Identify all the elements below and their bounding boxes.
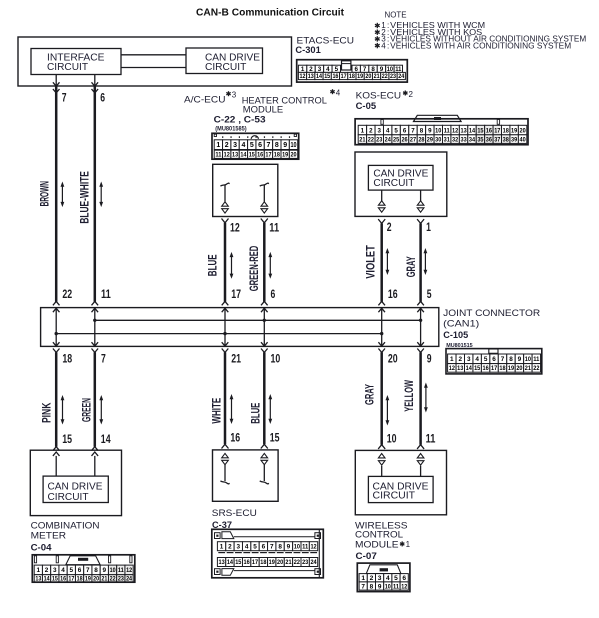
joint connector bottom chevrons w6 bbox=[417, 342, 424, 346]
svg-text:WHITE: WHITE bbox=[211, 398, 223, 424]
svg-text:5: 5 bbox=[250, 142, 254, 149]
svg-text:3: 3 bbox=[232, 91, 237, 100]
svg-text:GRAY: GRAY bbox=[365, 384, 377, 405]
svg-text:28: 28 bbox=[418, 137, 425, 143]
svg-text:2: 2 bbox=[458, 356, 462, 363]
connector chevron KOS pin 1 bbox=[417, 219, 424, 223]
svg-text:23: 23 bbox=[390, 73, 396, 80]
svg-text:7: 7 bbox=[86, 567, 90, 574]
svg-text:MODULE: MODULE bbox=[355, 540, 399, 551]
joint connector top chevrons w3 bbox=[222, 301, 229, 305]
terminal hook symbol pin 12 bbox=[220, 183, 229, 186]
svg-text:16: 16 bbox=[483, 365, 490, 372]
svg-text:13: 13 bbox=[35, 576, 42, 582]
svg-text:26: 26 bbox=[401, 137, 408, 143]
wireless control module box bbox=[355, 450, 446, 514]
comb meter entry chevrons pin 15 bbox=[53, 447, 60, 451]
svg-text:18: 18 bbox=[349, 73, 355, 80]
joint connector top chevrons w2 bbox=[92, 301, 99, 305]
connector chevrons ETACS pin 7 bbox=[53, 82, 60, 86]
wire GRAY pin1-to-5 bbox=[419, 223, 422, 301]
svg-text:18: 18 bbox=[62, 351, 72, 365]
direction arrow w2 bbox=[100, 184, 102, 206]
svg-text:4: 4 bbox=[245, 544, 249, 551]
svg-text:BLUE: BLUE bbox=[250, 402, 262, 423]
svg-text:16: 16 bbox=[244, 559, 251, 566]
svg-text:20: 20 bbox=[93, 576, 100, 582]
svg-text:14: 14 bbox=[101, 432, 111, 446]
joint connector top chevrons w5 bbox=[378, 301, 385, 305]
svg-text:1: 1 bbox=[361, 575, 365, 582]
svg-text:17: 17 bbox=[252, 559, 259, 566]
junction node bus1-w4 bbox=[263, 319, 266, 322]
svg-text:18: 18 bbox=[77, 576, 84, 582]
svg-text:C-301: C-301 bbox=[295, 45, 321, 56]
svg-text:17: 17 bbox=[265, 152, 271, 159]
combination meter box bbox=[30, 450, 121, 515]
svg-text:12: 12 bbox=[310, 544, 317, 551]
wire BROWN pin7-to-22 bbox=[55, 86, 58, 302]
svg-text:18: 18 bbox=[499, 365, 506, 372]
C-07 top tab bbox=[366, 565, 401, 574]
svg-text:22: 22 bbox=[110, 576, 117, 582]
svg-text:6: 6 bbox=[403, 127, 407, 134]
joint connector bottom chevrons w4 bbox=[261, 342, 268, 346]
svg-text:7: 7 bbox=[101, 351, 106, 365]
terminal hook symbol pin 11 bbox=[260, 183, 269, 186]
svg-text:10: 10 bbox=[271, 351, 281, 365]
svg-text:24: 24 bbox=[310, 559, 317, 566]
svg-text:12: 12 bbox=[449, 365, 456, 372]
joint connector top chevrons w4 bbox=[261, 301, 268, 305]
joint connector top chevrons w6 bbox=[417, 301, 424, 305]
direction arrow lower w5 bbox=[386, 397, 388, 424]
svg-text:CIRCUIT: CIRCUIT bbox=[205, 62, 246, 73]
svg-text:8: 8 bbox=[94, 567, 98, 574]
svg-text:22: 22 bbox=[382, 73, 388, 80]
connector chevrons ETACS pin 6 bbox=[92, 82, 99, 86]
svg-text:20: 20 bbox=[388, 351, 398, 365]
svg-text:1: 1 bbox=[216, 142, 220, 149]
C-37 top band line bbox=[234, 536, 315, 538]
svg-text:CIRCUIT: CIRCUIT bbox=[48, 492, 89, 503]
direction arrow lower w1 bbox=[62, 397, 64, 423]
SRS entry chevron pin 16 bbox=[222, 444, 229, 448]
wire YELLOW 9-to-11 bbox=[419, 352, 422, 445]
svg-text:CAN DRIVE: CAN DRIVE bbox=[48, 481, 103, 492]
SRS-ECU box bbox=[213, 450, 279, 501]
svg-text:5: 5 bbox=[70, 567, 74, 574]
wire stub pin7 bbox=[55, 75, 57, 87]
svg-text::: : bbox=[387, 41, 389, 50]
joint connector top chevrons w1 bbox=[53, 301, 60, 305]
svg-text:10: 10 bbox=[110, 567, 116, 574]
svg-text:19: 19 bbox=[508, 365, 515, 372]
svg-text:7: 7 bbox=[501, 356, 505, 363]
svg-text:39: 39 bbox=[511, 137, 518, 143]
svg-text:CAN-B Communication Circuit: CAN-B Communication Circuit bbox=[196, 7, 345, 18]
svg-text:GREEN-RED: GREEN-RED bbox=[249, 246, 261, 292]
joint connector bottom chevrons w5 bbox=[378, 342, 385, 346]
svg-text:9: 9 bbox=[287, 544, 291, 551]
svg-text:C-22 , C-53: C-22 , C-53 bbox=[214, 114, 266, 125]
svg-text:8: 8 bbox=[278, 544, 282, 551]
svg-text:C-04: C-04 bbox=[31, 542, 53, 553]
wire WHITE 21-to-16 bbox=[224, 352, 227, 444]
svg-text:16: 16 bbox=[257, 152, 263, 159]
svg-text:3: 3 bbox=[467, 356, 471, 363]
svg-text:BLUE-WHITE: BLUE-WHITE bbox=[80, 171, 92, 224]
svg-text:6: 6 bbox=[258, 142, 262, 149]
svg-text:36: 36 bbox=[486, 137, 493, 143]
svg-text:5: 5 bbox=[427, 287, 432, 301]
svg-text:9: 9 bbox=[427, 351, 432, 365]
direction arrow lower w3 bbox=[231, 396, 233, 422]
direction arrow w1 bbox=[61, 184, 63, 206]
svg-text:20: 20 bbox=[516, 365, 523, 372]
svg-text:15: 15 bbox=[474, 365, 481, 372]
joint connector bottom chevrons w3 bbox=[222, 342, 229, 346]
svg-text:5: 5 bbox=[484, 356, 488, 363]
svg-text:21: 21 bbox=[285, 559, 292, 566]
svg-text:C-105: C-105 bbox=[443, 330, 469, 341]
svg-text:7: 7 bbox=[62, 90, 67, 104]
svg-text:6: 6 bbox=[402, 575, 406, 582]
wire BLUE-WHITE pin6-to-11 bbox=[94, 86, 97, 302]
svg-text:15: 15 bbox=[235, 559, 242, 566]
svg-text:10: 10 bbox=[294, 544, 301, 551]
svg-text:18: 18 bbox=[503, 127, 510, 134]
svg-text:20: 20 bbox=[519, 127, 526, 134]
svg-text:4: 4 bbox=[386, 127, 390, 134]
C-37 top-left tab bbox=[222, 532, 234, 539]
CAN drive circuit box (wireless) bbox=[368, 476, 433, 502]
connector C-301 drawing bbox=[297, 60, 408, 82]
svg-text:12: 12 bbox=[300, 73, 306, 80]
svg-text:24: 24 bbox=[398, 73, 404, 80]
svg-text:14: 14 bbox=[466, 365, 473, 372]
joint connector internal wire w4 bbox=[263, 308, 265, 347]
svg-text:13: 13 bbox=[218, 559, 225, 566]
svg-text:14: 14 bbox=[469, 127, 476, 134]
svg-text:11: 11 bbox=[118, 567, 124, 574]
connector chevron KOS pin 2 bbox=[378, 219, 385, 223]
svg-text:21: 21 bbox=[359, 137, 366, 143]
svg-text:19: 19 bbox=[85, 576, 92, 582]
svg-text:37: 37 bbox=[494, 137, 501, 143]
junction node bus1-w6 bbox=[419, 319, 422, 322]
svg-text:C-05: C-05 bbox=[356, 101, 377, 112]
CAN drive circuit box (ETACS) bbox=[186, 48, 263, 74]
svg-text:C-07: C-07 bbox=[356, 551, 377, 562]
svg-text:3: 3 bbox=[378, 575, 382, 582]
svg-text:11: 11 bbox=[269, 220, 279, 234]
interface circuit box U-INT bbox=[31, 49, 121, 75]
svg-text:11: 11 bbox=[393, 583, 399, 590]
svg-text:17: 17 bbox=[341, 73, 347, 80]
svg-text:31: 31 bbox=[444, 137, 451, 143]
svg-text:6: 6 bbox=[100, 90, 105, 104]
direction arrow w3 bbox=[231, 254, 233, 277]
wireless twisted pair triangles pin 10 bbox=[378, 454, 385, 458]
svg-text:12: 12 bbox=[452, 127, 459, 134]
svg-text:21: 21 bbox=[231, 351, 241, 365]
svg-text:11: 11 bbox=[444, 127, 451, 134]
svg-text:GREEN: GREEN bbox=[81, 398, 93, 422]
svg-text:19: 19 bbox=[282, 152, 288, 159]
svg-text:9: 9 bbox=[378, 583, 382, 590]
svg-text:11: 11 bbox=[302, 544, 309, 551]
svg-text:YELLOW: YELLOW bbox=[404, 380, 416, 412]
svg-text:12: 12 bbox=[126, 567, 132, 574]
svg-text:2: 2 bbox=[387, 220, 392, 234]
svg-text:1: 1 bbox=[426, 220, 431, 234]
svg-text:23: 23 bbox=[302, 559, 309, 566]
svg-text:13: 13 bbox=[457, 365, 464, 372]
svg-text:11: 11 bbox=[101, 287, 111, 301]
svg-text:20: 20 bbox=[290, 152, 296, 159]
svg-text:4: 4 bbox=[475, 356, 479, 363]
svg-text:13: 13 bbox=[308, 73, 314, 80]
wire VIOLET pin2-to-16 bbox=[380, 223, 383, 301]
svg-text:20: 20 bbox=[277, 559, 284, 566]
wireless entry chevron pin 10 bbox=[378, 445, 385, 449]
svg-text:17: 17 bbox=[231, 287, 241, 301]
svg-text:9: 9 bbox=[518, 356, 522, 363]
svg-text:1: 1 bbox=[406, 540, 411, 549]
svg-text:NOTE: NOTE bbox=[385, 10, 408, 19]
svg-text:8: 8 bbox=[275, 142, 279, 149]
svg-text:30: 30 bbox=[435, 137, 442, 143]
svg-text:34: 34 bbox=[469, 137, 476, 143]
comb meter entry chevrons pin 14 bbox=[92, 447, 99, 451]
svg-text:A/C-ECU: A/C-ECU bbox=[184, 94, 226, 105]
joint connector internal wire w2 bbox=[94, 308, 96, 347]
svg-text:20: 20 bbox=[365, 73, 371, 80]
direction arrow lower w2 bbox=[100, 397, 102, 423]
svg-text:22: 22 bbox=[533, 365, 540, 372]
svg-text:2: 2 bbox=[45, 567, 49, 574]
svg-text:6: 6 bbox=[262, 544, 266, 551]
svg-text:VEHICLES WITH AIR CONDITIONING: VEHICLES WITH AIR CONDITIONING SYSTEM bbox=[390, 41, 571, 50]
svg-text:2: 2 bbox=[228, 544, 232, 551]
svg-text:15: 15 bbox=[249, 152, 255, 159]
svg-text:7: 7 bbox=[361, 583, 365, 590]
svg-text:9: 9 bbox=[103, 567, 107, 574]
svg-text:22: 22 bbox=[294, 559, 301, 566]
connector C-22 C-53 drawing bbox=[212, 133, 299, 159]
KOS-ECU box bbox=[355, 152, 447, 216]
connector C-105 drawing bbox=[446, 349, 542, 374]
svg-text:15: 15 bbox=[477, 127, 484, 134]
joint connector internal wire w6 bbox=[420, 308, 422, 347]
svg-text:33: 33 bbox=[460, 137, 467, 143]
svg-text:21: 21 bbox=[525, 365, 532, 372]
svg-text:29: 29 bbox=[427, 137, 434, 143]
junction node bus2-w1 bbox=[55, 332, 58, 335]
svg-text:19: 19 bbox=[269, 559, 276, 566]
C-37 bottom band line bbox=[234, 570, 315, 572]
svg-text:BROWN: BROWN bbox=[40, 181, 52, 206]
svg-text:27: 27 bbox=[410, 137, 417, 143]
connector C-05 drawing bbox=[355, 119, 528, 145]
svg-text:9: 9 bbox=[428, 127, 432, 134]
svg-text:8: 8 bbox=[370, 583, 374, 590]
C-04 top tab bbox=[66, 556, 100, 565]
svg-text:21: 21 bbox=[101, 576, 108, 582]
svg-text:9: 9 bbox=[283, 142, 287, 149]
svg-text:8: 8 bbox=[420, 127, 424, 134]
svg-text:32: 32 bbox=[452, 137, 459, 143]
wire stub pin6 bbox=[94, 75, 96, 87]
svg-text:23: 23 bbox=[118, 576, 125, 582]
svg-text:25: 25 bbox=[393, 137, 400, 143]
direction arrow w5 bbox=[386, 250, 388, 273]
svg-text:5: 5 bbox=[394, 127, 398, 134]
junction node bus2-w3 bbox=[223, 332, 226, 335]
svg-text:CIRCUIT: CIRCUIT bbox=[373, 490, 416, 501]
svg-text:2: 2 bbox=[369, 127, 373, 134]
svg-text:17: 17 bbox=[491, 365, 498, 372]
svg-text:15: 15 bbox=[324, 73, 330, 80]
svg-text:24: 24 bbox=[126, 576, 133, 582]
svg-text:22: 22 bbox=[62, 287, 72, 301]
wire link interface-to-candrive bbox=[121, 54, 186, 56]
direction arrow w6 bbox=[424, 250, 426, 273]
CAN bus line 1 bbox=[95, 319, 421, 321]
svg-text:18: 18 bbox=[260, 559, 267, 566]
svg-text:3: 3 bbox=[233, 142, 237, 149]
svg-text:14: 14 bbox=[44, 576, 51, 582]
CAN drive circuit box (KOS) bbox=[368, 165, 433, 190]
svg-text:15: 15 bbox=[52, 576, 59, 582]
wireless twisted pair triangles pin 11 bbox=[417, 454, 424, 458]
svg-text:14: 14 bbox=[227, 559, 234, 566]
C-05 top tab bbox=[414, 115, 462, 121]
svg-text:4: 4 bbox=[336, 89, 341, 98]
A/C heater module box bbox=[213, 164, 278, 216]
svg-text:(CAN1): (CAN1) bbox=[443, 319, 479, 330]
connector C-37 drawing bbox=[212, 529, 323, 578]
svg-text:7: 7 bbox=[411, 127, 415, 134]
svg-text:8: 8 bbox=[509, 356, 513, 363]
wire BLUE pin12-to-17 bbox=[224, 223, 227, 302]
svg-text:VIOLET: VIOLET bbox=[366, 245, 378, 279]
svg-text:7: 7 bbox=[270, 544, 274, 551]
svg-text:15: 15 bbox=[270, 430, 280, 444]
svg-text:CIRCUIT: CIRCUIT bbox=[373, 178, 414, 189]
svg-text:13: 13 bbox=[232, 152, 238, 159]
svg-text:22: 22 bbox=[368, 137, 375, 143]
svg-text:11: 11 bbox=[426, 431, 436, 445]
svg-text:3: 3 bbox=[53, 567, 57, 574]
svg-text:3: 3 bbox=[378, 127, 382, 134]
svg-text:23: 23 bbox=[376, 137, 383, 143]
svg-text:6: 6 bbox=[271, 287, 276, 301]
svg-text:12: 12 bbox=[401, 583, 407, 590]
svg-text:11: 11 bbox=[533, 356, 540, 363]
svg-text:JOINT CONNECTOR: JOINT CONNECTOR bbox=[443, 308, 540, 319]
svg-text:SRS-ECU: SRS-ECU bbox=[212, 508, 257, 519]
wire GREEN-RED pin11-to-6 bbox=[263, 223, 266, 302]
joint connector internal wire w3 bbox=[224, 308, 226, 347]
svg-text:40: 40 bbox=[519, 137, 526, 143]
ETACS-ECU box bbox=[18, 37, 292, 86]
svg-text:17: 17 bbox=[494, 127, 501, 134]
svg-text:2: 2 bbox=[409, 90, 414, 99]
twisted pair triangles pin 11 bbox=[261, 202, 268, 206]
SRS twisted pair triangles and hook pin 16 bbox=[222, 453, 229, 457]
svg-text:18: 18 bbox=[274, 152, 280, 159]
joint connector bottom chevrons w2 bbox=[92, 342, 99, 346]
svg-text:10: 10 bbox=[290, 142, 296, 149]
svg-text:10: 10 bbox=[385, 583, 391, 590]
svg-text:1: 1 bbox=[220, 544, 224, 551]
SRS entry chevron pin 15 bbox=[261, 444, 268, 448]
svg-text:KOS-ECU: KOS-ECU bbox=[356, 90, 402, 101]
wire BLUE 10-to-15 bbox=[263, 352, 266, 444]
joint connector internal wire w5 bbox=[381, 308, 383, 347]
svg-text:5: 5 bbox=[394, 575, 398, 582]
svg-text:GRAY: GRAY bbox=[406, 256, 418, 277]
svg-text:CIRCUIT: CIRCUIT bbox=[47, 62, 88, 73]
svg-text:3: 3 bbox=[237, 544, 241, 551]
svg-text:12: 12 bbox=[224, 152, 230, 159]
svg-text:24: 24 bbox=[385, 137, 392, 143]
svg-text:13: 13 bbox=[460, 127, 467, 134]
svg-text:1: 1 bbox=[37, 567, 41, 574]
svg-text:38: 38 bbox=[503, 137, 510, 143]
svg-text:4: 4 bbox=[386, 575, 390, 582]
svg-text:6: 6 bbox=[78, 567, 82, 574]
wire GRAY 20-to-10 bbox=[380, 352, 383, 445]
svg-text:2: 2 bbox=[370, 575, 374, 582]
svg-text:2: 2 bbox=[225, 142, 229, 149]
svg-text:(MU801585): (MU801585) bbox=[215, 125, 246, 132]
svg-text:19: 19 bbox=[357, 73, 363, 80]
CAN drive circuit box (comb meter) bbox=[43, 476, 108, 502]
KOS stub with triangles pin 2 bbox=[381, 190, 383, 201]
svg-text:19: 19 bbox=[511, 127, 518, 134]
svg-text:14: 14 bbox=[240, 152, 246, 159]
svg-text:10: 10 bbox=[435, 127, 442, 134]
wireless entry chevron pin 11 bbox=[417, 445, 424, 449]
svg-text:7: 7 bbox=[267, 142, 271, 149]
connector C-04 drawing bbox=[32, 555, 135, 582]
svg-text:10: 10 bbox=[525, 356, 532, 363]
svg-text:11: 11 bbox=[215, 152, 221, 159]
svg-text:16: 16 bbox=[60, 576, 67, 582]
svg-text:4: 4 bbox=[381, 41, 386, 50]
svg-text:1: 1 bbox=[361, 127, 365, 134]
junction node bus2-w5 bbox=[380, 332, 383, 335]
joint connector bottom chevrons w1 bbox=[53, 342, 60, 346]
svg-text:METER: METER bbox=[31, 531, 67, 542]
C-37 bottom-left tab bbox=[222, 569, 234, 576]
svg-text:BLUE: BLUE bbox=[207, 254, 219, 276]
svg-text:4: 4 bbox=[61, 567, 65, 574]
svg-text:10: 10 bbox=[387, 431, 397, 445]
twisted pair triangles pin 12 bbox=[222, 202, 229, 206]
direction arrow lower w4 bbox=[269, 396, 271, 422]
C-301 keying tab bbox=[342, 61, 351, 70]
svg-text:16: 16 bbox=[230, 430, 240, 444]
joint connector CAN1 box bbox=[41, 308, 439, 347]
svg-text:15: 15 bbox=[62, 432, 72, 446]
svg-text:5: 5 bbox=[253, 544, 257, 551]
wire GREEN 7-to-14 bbox=[94, 352, 97, 447]
connector chevron A/C pin 12 bbox=[222, 219, 229, 223]
